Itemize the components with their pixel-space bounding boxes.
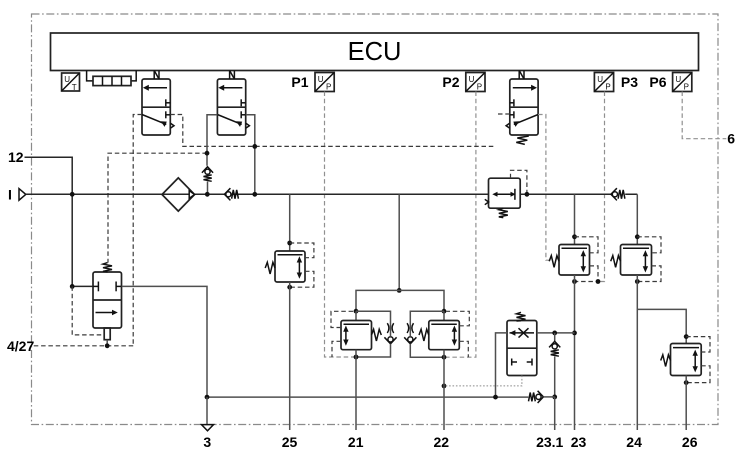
ECU connector X1 [87, 71, 137, 86]
ECU U1 [51, 33, 699, 71]
V22 bypass orifice [407, 323, 413, 333]
junction valve 21 inlet [354, 309, 359, 314]
solenoid valve Y3 [506, 79, 538, 135]
port 24 line [636, 275, 638, 430]
check valve V7 (tank to 23.1) [529, 391, 555, 403]
Y3 return spring [516, 136, 529, 144]
junction valve 23 inlet [572, 234, 577, 239]
pilot stub Y3 left port [496, 113, 510, 115]
svg-text:P: P [477, 83, 482, 92]
V231 spring (top) [517, 312, 526, 321]
V24 pilot loops [637, 237, 661, 282]
junction tank / port 3 [205, 395, 210, 400]
V25 spring (left) [265, 262, 275, 274]
junction V23 pilot / sensor P3 [596, 279, 601, 284]
line 12 down to regulator inlet [72, 194, 93, 286]
svg-text:24: 24 [626, 434, 642, 450]
pilot line Y3 to valve 23 spring [538, 115, 550, 261]
solenoid valve Y2 [217, 79, 249, 135]
V22 outlet junction [442, 355, 447, 360]
proportional reducing valve V21 [341, 311, 372, 350]
valve Y2 output left branch [207, 115, 217, 166]
filter F1 [162, 178, 195, 211]
svg-text:P: P [605, 83, 610, 92]
V25 outlet junction [287, 285, 292, 290]
V21 spring (right) [372, 329, 382, 341]
branch to valve 26 [637, 309, 686, 343]
sensor P1 pilot line [325, 92, 357, 358]
svg-text:ECU: ECU [348, 38, 402, 66]
svg-text:6: 6 [727, 131, 735, 147]
svg-text:U: U [469, 75, 475, 84]
sensor P2 pilot line [444, 92, 476, 358]
V21 bypass line [356, 311, 391, 357]
check valve V2 (vertical, ball+spring) [202, 167, 213, 195]
main pressure regulator V1 [93, 272, 122, 346]
V25 pilot loops [290, 243, 314, 287]
svg-text:26: 26 [682, 434, 698, 450]
V24 outlet junction [635, 279, 640, 284]
port 12 line [25, 157, 73, 194]
V22 bypass check valve [404, 337, 416, 344]
svg-text:U: U [318, 75, 324, 84]
V231 pilot (dotted) from port 22 [444, 376, 522, 386]
svg-text:P1: P1 [291, 74, 308, 90]
junction valve 26 inlet [684, 334, 689, 339]
junction valve 22 inlet [442, 309, 447, 314]
svg-text:23.1: 23.1 [536, 434, 563, 450]
safety valve V231 (23.1) [507, 321, 537, 376]
svg-text:21: 21 [348, 434, 364, 450]
V24 spring (left) [611, 256, 621, 268]
port 23.1 line [554, 397, 556, 430]
pressure reducing valve V4 (in main line) [485, 178, 520, 208]
pressure reducing valve V26 [671, 344, 702, 376]
feed line to valves 21/22 [398, 194, 400, 290]
valve Y2 output right branch [246, 115, 255, 195]
svg-text:P: P [326, 83, 331, 92]
V4 pilot loop [511, 170, 527, 192]
feed split line [356, 290, 444, 311]
junction V4 pilot / main [525, 192, 530, 197]
V231 drain to tank line [496, 333, 508, 397]
junction Y2 output / main [252, 192, 257, 197]
svg-text:P6: P6 [649, 74, 666, 90]
pressure sensor B2 (U/P) at P1 [315, 73, 334, 92]
junction 23 / 23.1 link [572, 331, 577, 336]
junction tank / V231 drain [493, 395, 498, 400]
relief check valve V6 (23.1 line) [549, 333, 560, 397]
port 3 triangle [202, 425, 214, 431]
svg-text:P2: P2 [442, 74, 459, 90]
V1 spring (top) [103, 263, 112, 272]
pressure reducing valve V24 [621, 245, 652, 276]
pressure sensor B4 (U/P) at P3 [594, 73, 613, 92]
port 25 line [289, 282, 291, 430]
main line right section [520, 193, 637, 195]
svg-text:P: P [684, 83, 689, 92]
pilot line Y1 left to port 4/27 [133, 115, 142, 346]
V22 bypass line [410, 311, 444, 357]
feed line to valve 24 [636, 194, 638, 244]
pressure reducing valve V25 [275, 251, 305, 282]
port 21 line [355, 350, 357, 430]
V22 spring (left) [419, 329, 429, 341]
svg-text:I: I [8, 187, 12, 203]
temperature sensor B1 (U/T) [62, 73, 80, 92]
pilot line to main regulator spring [108, 153, 207, 262]
pressure sensor B5 (U/P) at P6 [673, 73, 692, 92]
junction 23.1 / tank check [552, 395, 557, 400]
svg-text:23: 23 [571, 434, 587, 450]
V26 outlet junction [684, 380, 689, 385]
sensor P3 pilot line [598, 92, 605, 282]
check valve V5 (in main line right) [611, 188, 625, 200]
proportional reducing valve V22 [429, 311, 460, 350]
port 22 line [443, 350, 445, 430]
V26 spring (left) [661, 355, 671, 367]
svg-text:U: U [64, 75, 70, 84]
svg-text:4/27: 4/27 [7, 338, 34, 354]
svg-text:3: 3 [203, 434, 211, 450]
pressure sensor B3 (U/P) at P2 [466, 73, 485, 92]
pilot line Y1 right (to Y2 output and Y3) [170, 115, 495, 147]
V21 pilot loops [331, 311, 354, 357]
V26 pilot loops [686, 337, 710, 383]
V23 outlet junction [572, 279, 577, 284]
V21 bypass check valve [384, 337, 396, 344]
svg-text:22: 22 [434, 434, 450, 450]
sensor P6 line to port 6 [682, 92, 726, 139]
junction 23.1 pilot tap [442, 384, 447, 389]
Y1 electrical connector [154, 71, 159, 80]
junction 12/main [70, 192, 75, 197]
svg-text:P3: P3 [621, 74, 638, 90]
junction regulator inlet [70, 284, 75, 289]
V22 pilot loops [447, 311, 470, 357]
V4 spring (bottom) [499, 208, 508, 217]
junction Y1 pilot on Y2 output [252, 144, 257, 149]
solenoid valve Y1 [142, 79, 174, 135]
Y3 electrical connector [519, 71, 524, 80]
V23 spring (left) [549, 256, 559, 268]
main supply line I [26, 193, 489, 195]
Y2 electrical connector [230, 71, 235, 80]
svg-text:U: U [675, 75, 681, 84]
junction V1 drain / 4-27 [105, 343, 110, 348]
junction valve 25 inlet [287, 241, 292, 246]
svg-text:T: T [72, 83, 77, 92]
svg-text:25: 25 [282, 434, 298, 450]
check valve V3 (in main line) [224, 188, 238, 200]
feed line to valve 23 [574, 194, 576, 244]
port I arrow [19, 189, 26, 201]
V21 outlet junction [354, 355, 359, 360]
tank line 3 [207, 396, 528, 398]
pilot line 4/27 horizontal [33, 345, 134, 347]
junction 23.1 relief [552, 331, 557, 336]
V1 pilot from inlet [72, 286, 103, 335]
V231 outlet to 23 line [537, 332, 575, 334]
feed line to valve 25 [289, 194, 291, 251]
V21 bypass orifice [387, 323, 393, 333]
svg-text:12: 12 [8, 149, 24, 165]
junction pilot tap [205, 151, 210, 156]
V23 pilot loops [575, 237, 599, 282]
V1 outlet to tank line [122, 286, 208, 397]
pressure reducing valve V23 [559, 245, 590, 276]
svg-text:U: U [597, 75, 603, 84]
junction valve 24 inlet [635, 234, 640, 239]
junction check/main [205, 192, 210, 197]
port 26 line [685, 376, 687, 431]
port 3 drain symbol [206, 397, 208, 424]
junction 21/22 feed split [397, 288, 402, 293]
port 23 line [574, 275, 576, 430]
